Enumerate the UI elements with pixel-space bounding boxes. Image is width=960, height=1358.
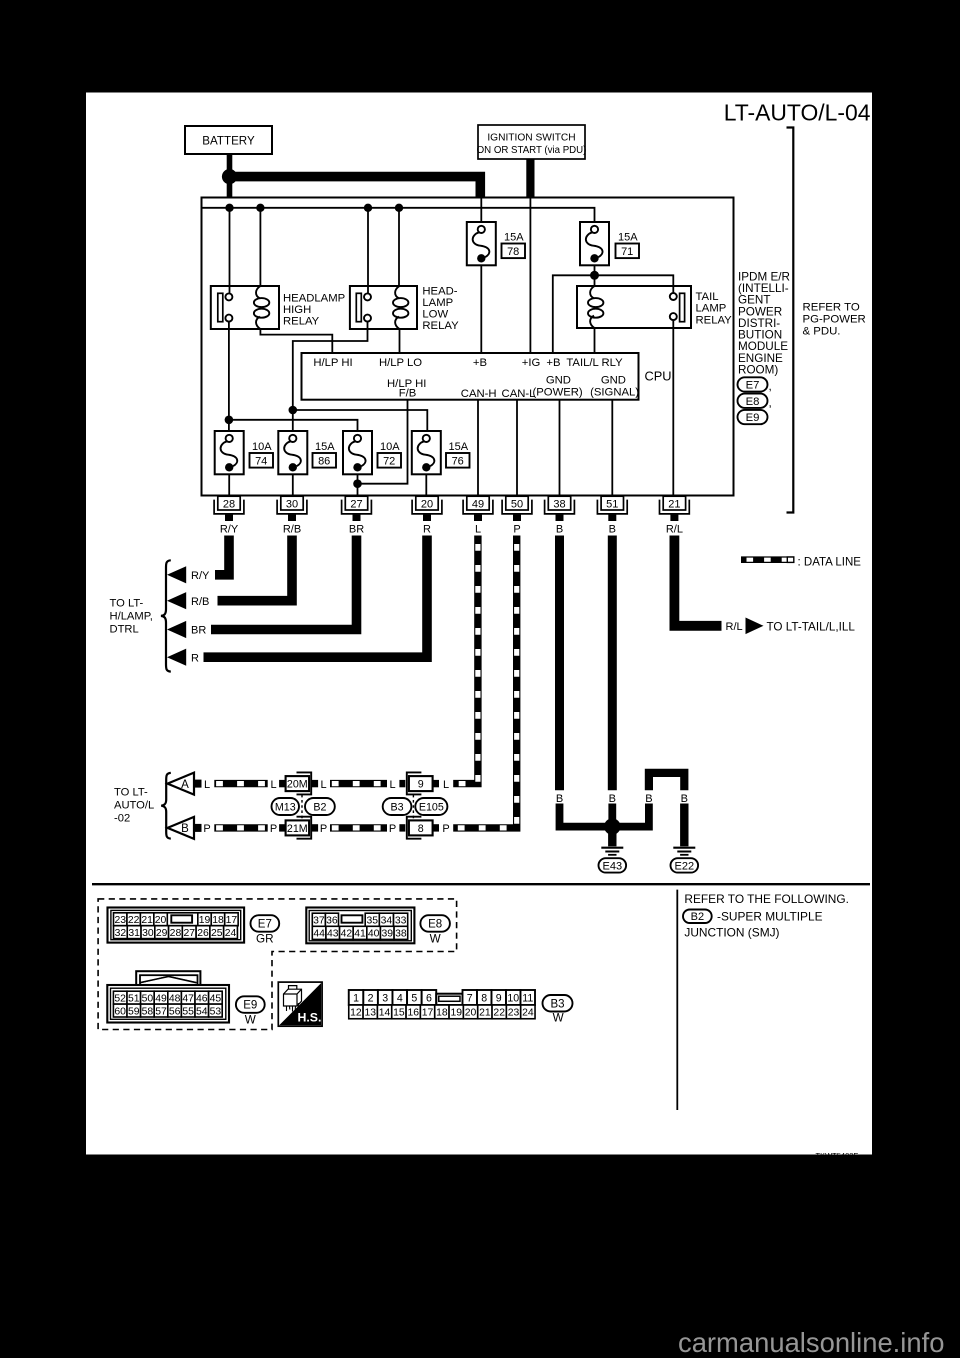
harness arrow B (168, 817, 202, 839)
svg-text:B: B (645, 793, 652, 805)
svg-text:39: 39 (381, 929, 393, 940)
svg-text:ON OR START (via PDU): ON OR START (via PDU) (477, 145, 587, 156)
svg-text:P: P (442, 823, 449, 835)
connector ref E9 (738, 410, 768, 424)
svg-text:15A: 15A (618, 232, 638, 244)
svg-text:GND: GND (546, 374, 571, 386)
label tail lamp relay (696, 291, 733, 327)
CPU terminal labels bottom row (387, 374, 639, 400)
brace TO LT-AUTO/L-02 (161, 773, 171, 839)
svg-text:76: 76 (452, 455, 464, 467)
IPDM connector pin 20 (412, 496, 442, 521)
svg-text:18: 18 (436, 1008, 448, 1019)
svg-text:BR: BR (349, 523, 364, 535)
svg-text:78: 78 (507, 246, 519, 258)
wire bus to headlamp high relay contact (229, 208, 231, 294)
arrow out R (167, 649, 186, 666)
fuse 78 (467, 222, 496, 265)
svg-text:42: 42 (341, 929, 353, 940)
SMJ joint 9 (399, 772, 439, 794)
data line segment P 1 (214, 824, 267, 831)
wire B from pin 38 (555, 536, 564, 791)
fuse value label 86 (313, 441, 337, 467)
wire R/Y to H/LAMP (215, 536, 229, 575)
svg-text:21M: 21M (287, 823, 308, 835)
svg-text:H/LP LO: H/LP LO (379, 357, 422, 369)
node junction above fuse 86 (289, 406, 298, 415)
svg-text:TO LT-TAIL/L,ILL: TO LT-TAIL/L,ILL (767, 620, 856, 633)
svg-text:46: 46 (196, 993, 208, 1004)
svg-text:CPU: CPU (645, 368, 672, 383)
svg-text:LAMP: LAMP (696, 303, 727, 315)
svg-text:R/Y: R/Y (220, 523, 239, 535)
svg-text:BR: BR (191, 625, 206, 637)
wire fuse 72 to pin 27 (357, 474, 359, 496)
wire bus to headlamp low relay contact (367, 208, 369, 294)
svg-text:24: 24 (522, 1008, 534, 1019)
svg-text:49: 49 (155, 993, 167, 1004)
legend data line symbol (741, 557, 795, 562)
svg-text:(POWER): (POWER) (532, 386, 582, 398)
svg-text:51: 51 (128, 993, 140, 1004)
svg-text:8: 8 (418, 823, 424, 835)
IPDM connector pin 21 (660, 496, 690, 521)
svg-text:17: 17 (422, 1008, 434, 1019)
svg-text:27: 27 (183, 928, 195, 939)
svg-text:11: 11 (522, 992, 533, 1004)
svg-text:CAN-H: CAN-H (461, 388, 497, 400)
svg-text:E9: E9 (243, 1000, 257, 1012)
fuse value label 74 (250, 441, 274, 467)
svg-text:23: 23 (508, 1008, 520, 1019)
wire high relay contact to fuses 74/72 (228, 322, 230, 431)
svg-text:50: 50 (511, 498, 523, 510)
svg-text:15: 15 (393, 1008, 405, 1019)
data line L (CAN-H) (453, 536, 478, 784)
svg-text:RELAY: RELAY (422, 320, 459, 332)
arrow out R/Y (167, 566, 186, 583)
svg-text:25: 25 (211, 928, 223, 939)
svg-text:P: P (320, 823, 327, 835)
svg-text:49: 49 (472, 498, 484, 510)
CPU block (302, 353, 639, 400)
connector ref E9 oval (236, 996, 265, 1013)
svg-text:HEADLAMP: HEADLAMP (283, 292, 345, 304)
harness arrow A (168, 773, 202, 795)
connector ref B3 oval (543, 995, 573, 1012)
wire ground jumper up-over (614, 804, 649, 827)
label headlamp low relay (422, 286, 459, 333)
svg-text:38: 38 (395, 929, 407, 940)
ignition switch box (477, 125, 587, 159)
svg-text:B: B (181, 823, 189, 835)
svg-text:ROOM): ROOM) (738, 364, 778, 377)
svg-text:28: 28 (170, 928, 182, 939)
svg-text:+IG: +IG (522, 357, 541, 369)
wire fuse 78 to CPU +B (480, 265, 482, 353)
relay: headlamp high relay (211, 286, 279, 329)
wire low relay coil to CPU H/LP LO (399, 329, 401, 353)
wire H/LP HI F/B from CPU (358, 400, 408, 484)
data line segment L 2 (330, 780, 387, 787)
svg-text:45: 45 (210, 993, 222, 1004)
svg-text:9: 9 (418, 779, 424, 791)
svg-text:43: 43 (327, 929, 339, 940)
IPDM connector pin 28 (214, 496, 244, 521)
wire high relay coil to CPU H/LP HI (260, 329, 332, 353)
svg-text:E7: E7 (258, 919, 272, 931)
svg-text:53: 53 (210, 1006, 222, 1017)
svg-text:22: 22 (128, 915, 140, 926)
svg-text:60: 60 (114, 1006, 126, 1017)
SMJ joint 21M (279, 817, 318, 839)
svg-text:51: 51 (606, 498, 618, 510)
svg-text:21: 21 (141, 915, 153, 926)
svg-text:LOW: LOW (422, 309, 448, 321)
node bus junction 1 (225, 204, 233, 212)
svg-text:H.S.: H.S. (298, 1010, 322, 1024)
svg-text:B2: B2 (313, 801, 326, 813)
svg-text:(SIGNAL): (SIGNAL) (590, 386, 639, 398)
SMJ joint 8 (399, 817, 439, 839)
connector boundary dashes M13/B2 (301, 795, 303, 821)
svg-text:30: 30 (286, 498, 298, 510)
svg-text:35: 35 (366, 915, 378, 926)
svg-text:2: 2 (368, 992, 374, 1004)
svg-text:R/L: R/L (726, 621, 743, 633)
node bus junction 4 (395, 204, 403, 212)
connector boundary dashes B3/E105 (412, 795, 414, 821)
IPDM connector pin 50 (502, 496, 532, 521)
svg-text:B: B (556, 523, 563, 535)
wire fuse 74 to pin 28 (228, 474, 230, 496)
fuse 71 (580, 222, 609, 265)
IPDM connector pin 51 (597, 496, 627, 521)
svg-text:-SUPER MULTIPLE: -SUPER MULTIPLE (717, 909, 823, 923)
CPU terminal labels top row (313, 357, 623, 369)
svg-text:-02: -02 (114, 813, 130, 825)
wire bus to headlamp low relay coil (398, 208, 400, 286)
fuse value label 76 (446, 441, 470, 467)
svg-text:14: 14 (379, 1008, 391, 1019)
wire bus to headlamp high relay coil (259, 208, 261, 286)
connector ref E7 oval (251, 915, 280, 932)
svg-text:HIGH: HIGH (283, 304, 311, 316)
fuse value label 71 (616, 232, 640, 258)
label TO LT-AUTO/L-02 (114, 787, 154, 825)
svg-text:REFER TO: REFER TO (803, 301, 860, 313)
svg-text:LT-AUTO/L-04: LT-AUTO/L-04 (724, 100, 871, 126)
fuse value label 72 (378, 441, 402, 467)
node junction above fuse 74 (225, 416, 234, 425)
wire BR to H/LAMP (211, 536, 357, 630)
svg-text:: DATA LINE: : DATA LINE (798, 556, 862, 568)
ground E22 (671, 804, 699, 873)
connector ref B3 mid (383, 798, 412, 815)
svg-text:B2: B2 (691, 911, 704, 923)
svg-text:L: L (320, 779, 326, 791)
svg-text:24: 24 (225, 928, 237, 939)
svg-text:74: 74 (255, 455, 267, 467)
labels B row (556, 793, 688, 805)
node ground junction (604, 818, 620, 834)
svg-text:R/L: R/L (666, 523, 683, 535)
SMJ joint 20M (279, 772, 318, 794)
battery box (185, 126, 272, 154)
svg-text:13: 13 (364, 1008, 376, 1019)
svg-text:40: 40 (368, 929, 380, 940)
svg-text:26: 26 (197, 928, 209, 939)
wire fuse 86 to pin 30 (292, 474, 294, 496)
svg-text:PG-POWER: PG-POWER (803, 313, 866, 325)
svg-text:GND: GND (601, 374, 626, 386)
svg-text:R/Y: R/Y (191, 570, 210, 582)
svg-text:E105: E105 (419, 801, 444, 813)
svg-text:7: 7 (467, 992, 473, 1004)
wire branch to fuse 76 (293, 410, 428, 431)
svg-text:L: L (389, 779, 395, 791)
svg-text:28: 28 (223, 498, 235, 510)
svg-text:B: B (609, 523, 616, 535)
svg-text:31: 31 (128, 928, 140, 939)
svg-text:33: 33 (395, 915, 407, 926)
svg-text:+B: +B (473, 357, 487, 369)
svg-text:E8: E8 (746, 396, 760, 408)
section divider line (92, 883, 870, 885)
svg-text:AUTO/L: AUTO/L (114, 800, 154, 812)
svg-text:B: B (681, 793, 688, 805)
svg-text:P: P (203, 823, 210, 835)
svg-text:TAIL: TAIL (696, 291, 719, 303)
svg-text:HEAD-: HEAD- (422, 286, 457, 298)
node bus junction 3 (364, 204, 372, 212)
wire battery vertical feed (227, 154, 233, 199)
svg-text:72: 72 (383, 455, 395, 467)
svg-text:L: L (475, 523, 481, 535)
wire fuse 71 to tail relay net (594, 265, 596, 286)
data line segment L 1 (214, 780, 267, 787)
svg-text:JUNCTION (SMJ): JUNCTION (SMJ) (684, 926, 779, 940)
svg-text:B3: B3 (391, 801, 404, 813)
svg-text:19: 19 (199, 915, 211, 926)
svg-text:B: B (556, 793, 563, 805)
svg-text:21: 21 (668, 498, 680, 510)
svg-text:W: W (553, 1011, 564, 1024)
svg-text:47: 47 (182, 993, 194, 1004)
relay: headlamp low relay (350, 286, 417, 329)
svg-text:W: W (245, 1013, 256, 1026)
svg-text:CAN-L: CAN-L (502, 388, 536, 400)
connector ref B2 (305, 798, 335, 815)
wire R/L from pin 21 (674, 536, 721, 626)
wire battery feed to fuse 78 (480, 199, 482, 223)
svg-text:RELAY: RELAY (696, 315, 733, 327)
IPDM connector pin 27 (342, 496, 372, 521)
wire low relay contact to fuses 86/76 (293, 322, 368, 431)
svg-text:TKWT5402E: TKWT5402E (816, 1151, 859, 1160)
svg-text:29: 29 (156, 928, 168, 939)
svg-text:H/LAMP,: H/LAMP, (110, 610, 153, 622)
svg-text:52: 52 (114, 993, 126, 1004)
svg-text:20: 20 (155, 915, 167, 926)
svg-text:,: , (769, 380, 772, 393)
label headlamp high relay (283, 292, 345, 327)
node bus junction 2 (256, 204, 264, 212)
wire GND SIGNAL to pin 51 (611, 400, 613, 497)
svg-text:TO LT-: TO LT- (110, 597, 144, 609)
IPDM connector pin 49 (463, 496, 493, 521)
IPDM E/R enclosure frame (202, 198, 734, 496)
svg-text:58: 58 (142, 1006, 154, 1017)
fuse value label 78 (502, 232, 526, 258)
wire ignition switch feed (526, 159, 534, 199)
svg-text:5: 5 (411, 992, 417, 1004)
connector face E9 (107, 971, 229, 1022)
svg-text:21: 21 (479, 1008, 491, 1019)
data line segment P 2 (330, 824, 387, 831)
svg-text:TO LT-: TO LT- (114, 787, 148, 799)
svg-text:BATTERY: BATTERY (202, 134, 255, 147)
svg-text:6: 6 (426, 992, 432, 1004)
wire CAN-L to pin 50 (516, 400, 518, 497)
svg-text:TAIL/L RLY: TAIL/L RLY (566, 357, 623, 369)
label TO LT-H/LAMP, DTRL (110, 597, 153, 635)
svg-text:16: 16 (407, 1008, 419, 1019)
svg-text:E8: E8 (428, 919, 442, 931)
svg-text:10A: 10A (380, 441, 400, 453)
svg-text:P: P (513, 523, 520, 535)
svg-text:,: , (769, 396, 772, 409)
ground E43 (599, 834, 627, 873)
svg-text:B3: B3 (550, 998, 564, 1010)
fuse 74 (215, 431, 244, 474)
svg-text:F/B: F/B (399, 388, 417, 400)
relay: tail lamp relay (577, 286, 691, 328)
svg-text:27: 27 (350, 498, 362, 510)
svg-text:W: W (430, 932, 441, 945)
wire branch to fuse 72 (229, 420, 358, 431)
svg-text:P: P (270, 823, 277, 835)
svg-text:L: L (204, 779, 210, 791)
svg-text:E7: E7 (746, 380, 760, 392)
svg-text:R: R (191, 652, 199, 664)
svg-text:10A: 10A (252, 441, 272, 453)
svg-text:50: 50 (142, 993, 154, 1004)
connector ref E105 (415, 798, 447, 815)
svg-text:41: 41 (354, 929, 366, 940)
wire tail relay coil to CPU TAIL/L RLY (594, 328, 596, 353)
svg-text:& PDU.: & PDU. (803, 325, 841, 337)
svg-text:48: 48 (169, 993, 181, 1004)
svg-text:18: 18 (212, 915, 224, 926)
wire battery bus inside IPDM (202, 208, 595, 222)
svg-text:B: B (609, 793, 616, 805)
wire tail relay contact to pin 21 (672, 320, 674, 496)
fuse 76 (412, 431, 441, 474)
svg-text:R/B: R/B (283, 523, 301, 535)
svg-text:37: 37 (313, 915, 325, 926)
svg-text:15A: 15A (315, 441, 335, 453)
svg-text:A: A (181, 779, 189, 791)
brace TO LT-H/LAMP (161, 560, 171, 671)
connector face E8 (306, 908, 414, 944)
svg-text:19: 19 (450, 1008, 462, 1019)
wire B from pin 51 (608, 536, 617, 791)
wire fuse 76 to pin 20 (425, 474, 427, 496)
svg-text:34: 34 (381, 915, 393, 926)
connector face B3 (349, 990, 535, 1019)
svg-text:LAMP: LAMP (422, 297, 453, 309)
connector ref E7 (738, 377, 768, 391)
svg-text:55: 55 (182, 1006, 194, 1017)
junction node battery splice (222, 169, 237, 184)
watermark carmanualsonline.info (678, 1327, 944, 1358)
svg-text:20: 20 (421, 498, 433, 510)
svg-text:59: 59 (128, 1006, 140, 1017)
section divider vertical (676, 890, 678, 1110)
node junction H/LP HI F/B (353, 479, 362, 488)
svg-text:86: 86 (318, 455, 330, 467)
view-with-harness-connected H.S. symbol (278, 982, 322, 1026)
svg-text:3: 3 (382, 992, 388, 1004)
connector ref E8 (738, 394, 768, 408)
svg-text:8: 8 (481, 992, 487, 1004)
svg-text:15A: 15A (504, 232, 524, 244)
svg-text:L: L (270, 779, 276, 791)
svg-text:23: 23 (114, 915, 126, 926)
svg-text:E43: E43 (603, 860, 623, 872)
wire battery thick feed bar to IPDM (232, 177, 480, 199)
wire color labels row (220, 523, 683, 535)
data line P (CAN-L) (453, 536, 517, 828)
svg-text:15A: 15A (449, 441, 469, 453)
connector face E7 (108, 908, 245, 943)
svg-text:DTRL: DTRL (110, 623, 139, 635)
svg-text:22: 22 (493, 1008, 505, 1019)
svg-text:H/LP HI: H/LP HI (313, 357, 352, 369)
wire CAN-H to pin 49 (477, 400, 479, 497)
wire GND POWER to pin 38 (559, 400, 561, 497)
wire B pin51 lower segment (608, 804, 616, 823)
node tail relay feed junction (590, 271, 599, 280)
svg-text:IGNITION SWITCH: IGNITION SWITCH (487, 132, 575, 143)
svg-text:44: 44 (313, 929, 325, 940)
svg-text:20: 20 (465, 1008, 477, 1019)
IPDM connector pin 30 (277, 496, 307, 521)
svg-text:+B: +B (546, 357, 560, 369)
svg-text:17: 17 (226, 915, 238, 926)
wire ignition to CPU +IG (529, 199, 531, 354)
svg-text:L: L (443, 779, 449, 791)
svg-text:10: 10 (507, 992, 519, 1004)
connector ref E8 oval (420, 915, 450, 932)
arrow out BR (167, 621, 186, 638)
connector ref M13 (272, 798, 300, 815)
wire R to H/LAMP (204, 536, 428, 658)
connector ref B2 SMJ (683, 910, 712, 924)
svg-text:M13: M13 (275, 801, 296, 813)
fuse 72 (343, 431, 372, 474)
svg-text:REFER TO THE FOLLOWING.: REFER TO THE FOLLOWING. (684, 892, 849, 906)
svg-text:P: P (389, 823, 396, 835)
label refer to PG-POWER (803, 301, 866, 337)
wire B pin38 lower segment (560, 804, 609, 827)
svg-text:1: 1 (353, 992, 359, 1004)
dashed outline connector group (98, 899, 457, 1030)
IPDM connector pin 38 (545, 496, 575, 521)
svg-text:71: 71 (621, 246, 633, 258)
svg-text:R: R (423, 523, 431, 535)
